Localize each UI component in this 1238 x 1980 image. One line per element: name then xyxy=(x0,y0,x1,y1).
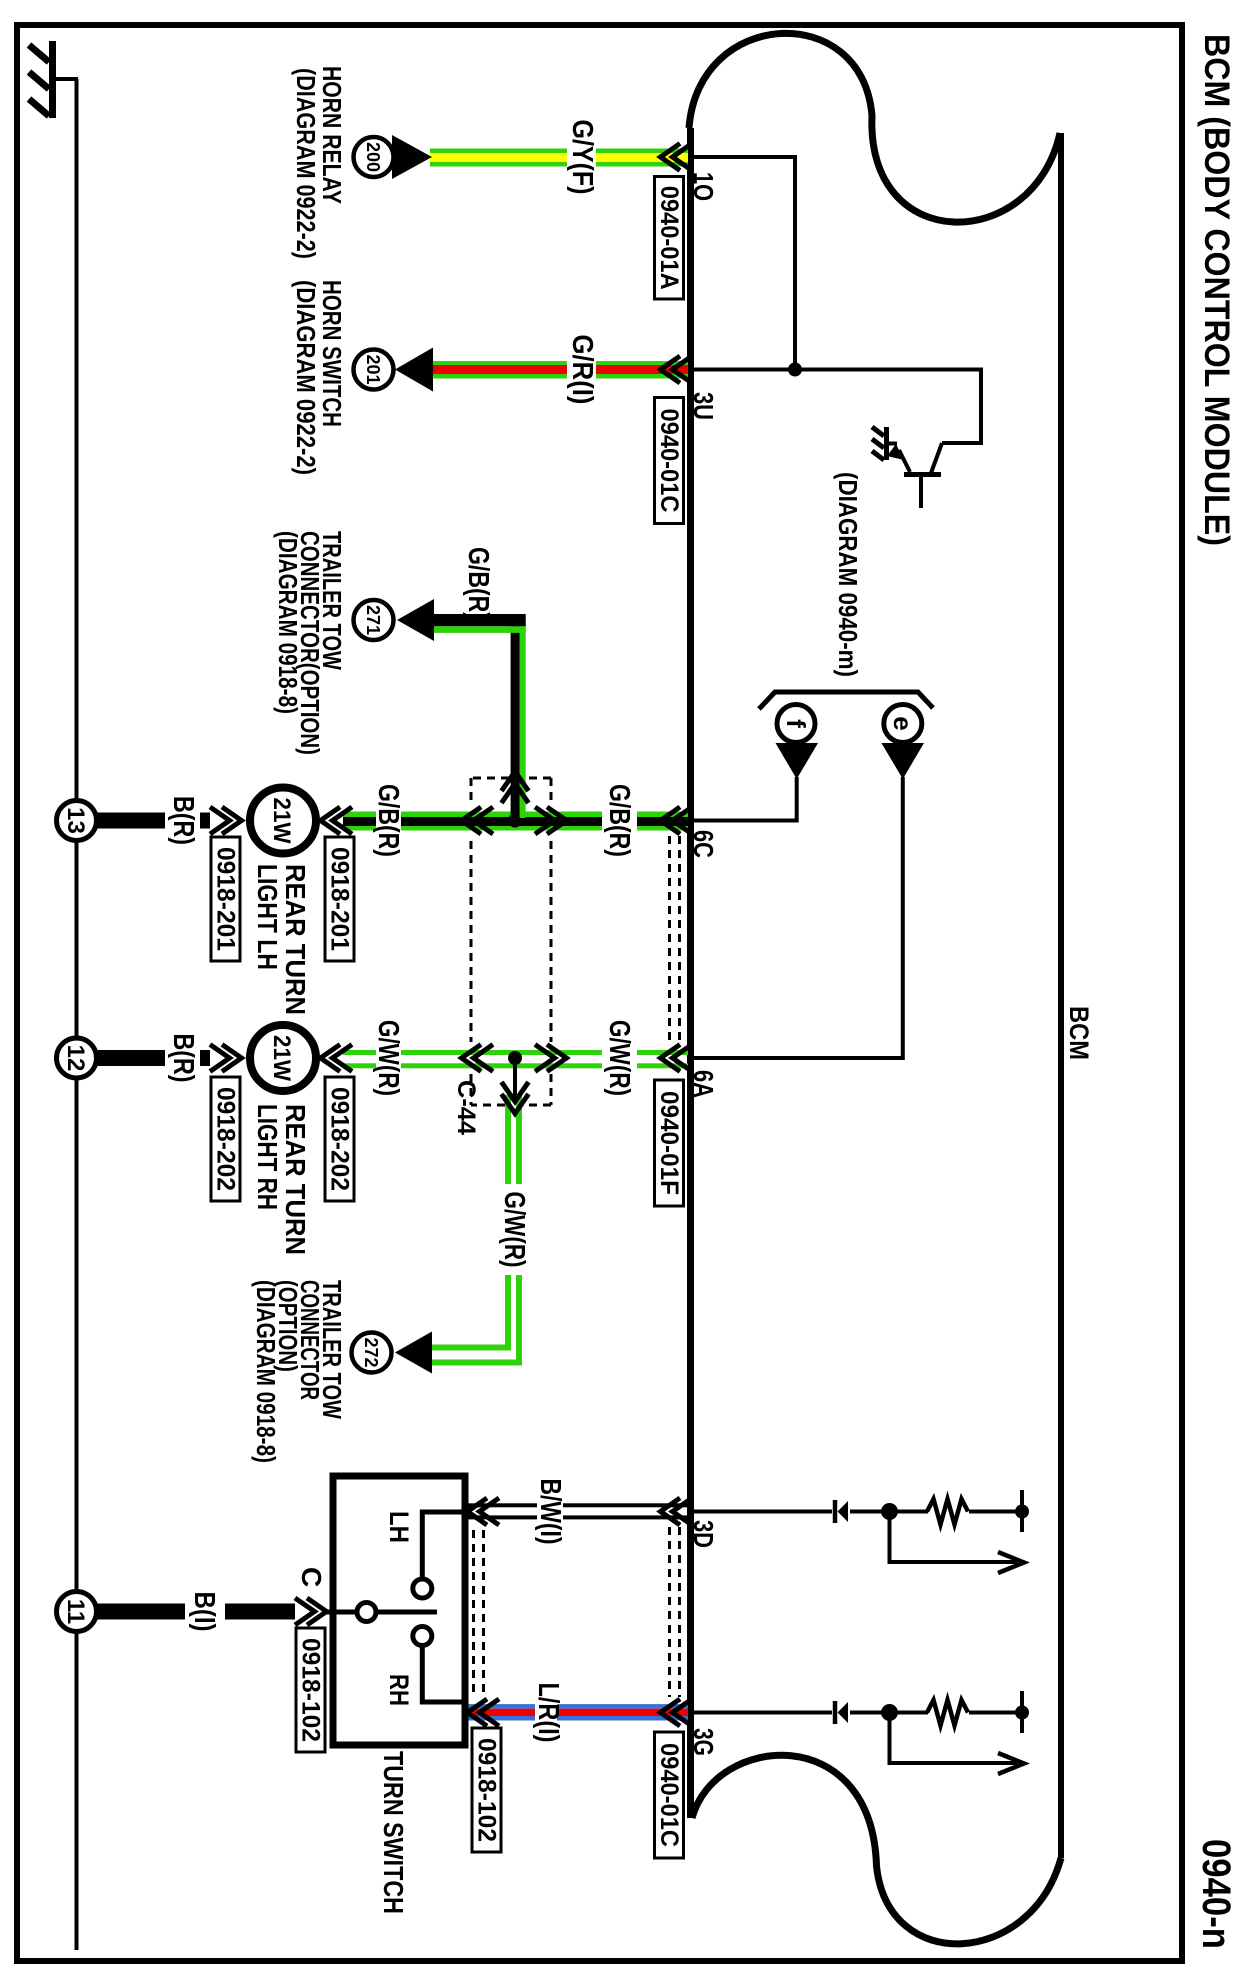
chevron at rear turn light LH upper xyxy=(321,807,353,834)
wire pin 3U internal xyxy=(691,370,981,444)
wire 3D branch arrow xyxy=(890,1516,1018,1562)
connector box 0918-202 upper xyxy=(325,1077,354,1201)
connector box 0918-201 lower xyxy=(211,837,240,961)
connector dashes 0940-01C xyxy=(670,1527,680,1697)
svg-text:L/R(I): L/R(I) xyxy=(532,1683,564,1743)
resistor R1 xyxy=(927,1499,968,1525)
label REAR TURN LIGHT RH xyxy=(252,1104,311,1255)
wire diode to junction 3D xyxy=(850,1510,888,1514)
wire G/W(R) branch to trailer tow 272 xyxy=(432,1058,522,1366)
chevron L/R at turn switch xyxy=(468,1699,500,1726)
svg-text:3D: 3D xyxy=(688,1520,719,1548)
svg-text:272: 272 xyxy=(361,1337,381,1367)
brace to diagram 0940-m xyxy=(759,692,933,709)
junction 1O/3U xyxy=(788,363,802,377)
svg-text:G/B(R): G/B(R) xyxy=(603,784,635,857)
svg-text:0918-201: 0918-201 xyxy=(212,847,240,951)
svg-text:f: f xyxy=(781,719,811,728)
svg-text:3U: 3U xyxy=(688,392,719,420)
svg-text:0940-01F: 0940-01F xyxy=(655,1091,683,1195)
wire e to 6A xyxy=(691,777,903,1058)
svg-text:LH: LH xyxy=(384,1511,414,1543)
junction 6C / trailer tow branch xyxy=(508,814,522,828)
node 13 (ground connector) xyxy=(57,801,97,841)
svg-text:(DIAGRAM 0918-8): (DIAGRAM 0918-8) xyxy=(273,531,303,714)
lamp 21W rear turn light LH xyxy=(250,788,316,854)
svg-text:G/W(R): G/W(R) xyxy=(498,1192,530,1268)
wire L/R(I) pin 3G to turn switch xyxy=(466,1704,688,1720)
connector box 0918-102 lower xyxy=(296,1628,325,1752)
label TRAILER TOW CONNECTOR (OPTION) (DIAGRAM 0918-8) xyxy=(251,1280,347,1463)
svg-text:BCM: BCM xyxy=(1064,1006,1094,1060)
svg-text:C: C xyxy=(296,1567,327,1587)
svg-text:(DIAGRAM 0922-2): (DIAGRAM 0922-2) xyxy=(291,68,321,259)
connector box 0940-01C xyxy=(655,398,684,524)
svg-text:G/Y(F): G/Y(F) xyxy=(566,120,598,195)
label TRAILER TOW CONNECTOR(OPTION) (DIAGRAM 0918-8) xyxy=(273,531,347,755)
chevron 6A wire out of C-44 xyxy=(462,1045,494,1072)
label REAR TURN LIGHT LH xyxy=(252,864,311,1015)
svg-text:0918-201: 0918-201 xyxy=(326,847,354,951)
turn switch LH contact xyxy=(413,1579,432,1598)
chevron branch 271 xyxy=(502,772,529,804)
svg-text:e: e xyxy=(888,716,918,730)
svg-text:11: 11 xyxy=(62,1599,89,1624)
svg-text:6C: 6C xyxy=(688,830,719,858)
wire f to 6C xyxy=(691,777,797,821)
turn switch common arm xyxy=(375,1610,437,1615)
junction 6A / trailer tow branch xyxy=(508,1051,522,1065)
connector dashes 0918-102 xyxy=(474,1530,484,1697)
connector chevron pin 3U xyxy=(661,356,693,383)
BCM module top edge xyxy=(1058,133,1064,1858)
wire G/R(I) pin 3U to horn switch xyxy=(433,361,688,379)
svg-text:0940-n: 0940-n xyxy=(1194,1839,1238,1949)
svg-text:12: 12 xyxy=(62,1045,89,1072)
svg-text:B(I): B(I) xyxy=(188,1592,220,1632)
diode D2 xyxy=(835,1701,848,1724)
svg-text:21W: 21W xyxy=(268,1035,295,1081)
svg-text:C-44: C-44 xyxy=(452,1080,480,1135)
wire junction to resistor 3D xyxy=(890,1510,928,1514)
label HORN SWITCH (DIAGRAM 0922-2) xyxy=(291,280,347,475)
transistor Q1 xyxy=(887,443,942,508)
svg-text:LIGHT RH: LIGHT RH xyxy=(252,1104,283,1210)
lamp 21W rear turn light RH xyxy=(250,1025,316,1091)
junction 3D internal xyxy=(881,1503,898,1520)
terminal 3D xyxy=(1015,1490,1029,1532)
connector chevron pin 6C xyxy=(661,807,693,834)
svg-text:0918-202: 0918-202 xyxy=(326,1087,354,1191)
svg-text:REAR TURN: REAR TURN xyxy=(280,1104,311,1255)
turn switch LH throw wire xyxy=(422,1512,462,1578)
svg-text:0918-102: 0918-102 xyxy=(297,1638,325,1742)
svg-text:0940-01C: 0940-01C xyxy=(655,1743,683,1847)
chevron branch 272 xyxy=(502,1082,529,1114)
wire junction to resistor 3G xyxy=(890,1711,928,1715)
chevron at rear turn light RH lower xyxy=(210,1045,242,1072)
svg-text:3G: 3G xyxy=(688,1728,719,1756)
svg-text:(DIAGRAM 0940-m): (DIAGRAM 0940-m) xyxy=(833,472,863,677)
transistor emitter ground symbol xyxy=(872,427,897,460)
chevron 6C wire out of C-44 xyxy=(462,807,494,834)
horn switch arrow 201 xyxy=(354,348,434,392)
svg-text:B(R): B(R) xyxy=(167,796,199,845)
diode D1 xyxy=(835,1500,848,1523)
svg-text:LIGHT LH: LIGHT LH xyxy=(252,864,283,970)
svg-text:0940-01A: 0940-01A xyxy=(655,186,683,290)
off-page arrow f xyxy=(776,705,819,780)
wire B(R) rear turn light RH to ground 12 xyxy=(95,1050,210,1066)
svg-text:13: 13 xyxy=(62,807,89,834)
connector box 0918-202 lower xyxy=(211,1077,240,1201)
wire B(I) turn switch to ground 11 xyxy=(95,1604,295,1620)
trailer tow connector arrow 271 xyxy=(354,599,435,641)
connector box 0940-01F xyxy=(655,1080,684,1206)
chevron B/W at turn switch xyxy=(468,1498,500,1525)
BCM module left break squiggle xyxy=(689,33,1060,222)
svg-text:6A: 6A xyxy=(688,1070,719,1098)
connector box 0940-01C lower xyxy=(655,1732,684,1858)
turn switch box xyxy=(333,1476,465,1745)
turn switch common contact xyxy=(357,1603,376,1622)
svg-text:G/W(R): G/W(R) xyxy=(372,1020,404,1096)
chevron at rear turn light LH lower xyxy=(210,807,242,834)
label HORN RELAY (DIAGRAM 0922-2) xyxy=(291,66,347,259)
connector box 0940-01A xyxy=(655,177,684,300)
connector chevron pin 3G xyxy=(661,1699,693,1726)
chevron 6A wire into C-44 xyxy=(535,1045,567,1072)
wire diode to junction 3G xyxy=(850,1711,888,1715)
wire pin 3G internal xyxy=(691,1711,832,1715)
svg-text:21W: 21W xyxy=(268,798,295,844)
svg-text:RH: RH xyxy=(384,1674,414,1706)
ground symbol xyxy=(29,41,53,118)
svg-text:201: 201 xyxy=(363,354,383,384)
connector chevron pin 6A xyxy=(661,1045,693,1072)
wire pin 1O internal xyxy=(691,157,795,368)
BCM module right break squiggle xyxy=(692,1755,1061,1944)
connector chevron pin 3D xyxy=(661,1498,693,1525)
wire G/Y(F) pin 1O to horn relay xyxy=(430,149,688,167)
node 12 (ground connector) xyxy=(57,1038,97,1078)
node 11 (ground connector) xyxy=(57,1592,97,1632)
svg-text:BCM (BODY CONTROL MODULE): BCM (BODY CONTROL MODULE) xyxy=(1197,34,1236,546)
svg-text:0940-01C: 0940-01C xyxy=(655,409,683,513)
chevron at rear turn light RH upper xyxy=(321,1045,353,1072)
svg-text:271: 271 xyxy=(363,605,383,635)
connector dashes 0940-01F xyxy=(670,836,680,1046)
wire G/B(R) pin 6C to rear turn light LH xyxy=(343,812,688,831)
terminal 3G xyxy=(1015,1691,1029,1733)
wire B/W(I) pin 3D to turn switch xyxy=(466,1503,688,1519)
wire B(R) rear turn light LH to ground 13 xyxy=(95,813,210,829)
svg-text:G/B(R): G/B(R) xyxy=(372,784,404,857)
connector chevron pin 1O xyxy=(661,144,693,171)
ground lead wire xyxy=(55,77,78,81)
ground bus wire xyxy=(75,79,79,1950)
svg-text:HORN SWITCH: HORN SWITCH xyxy=(317,280,347,427)
turn switch RH contact xyxy=(413,1627,432,1646)
svg-text:200: 200 xyxy=(363,142,383,172)
svg-text:G/R(I): G/R(I) xyxy=(566,335,598,405)
wire 3G branch arrow xyxy=(890,1717,1018,1763)
resistor R2 xyxy=(927,1700,968,1726)
wire G/B(R) branch to trailer tow 271 xyxy=(434,614,526,818)
svg-text:0918-202: 0918-202 xyxy=(212,1087,240,1191)
wire resistor to terminal 3G xyxy=(969,1711,1016,1715)
junction 3G internal xyxy=(881,1704,898,1721)
svg-text:B(R): B(R) xyxy=(167,1034,199,1083)
svg-text:(DIAGRAM 0918-8): (DIAGRAM 0918-8) xyxy=(251,1280,281,1463)
svg-text:G/W(R): G/W(R) xyxy=(603,1020,635,1096)
turn switch common lead xyxy=(326,1610,358,1615)
svg-text:(DIAGRAM 0922-2): (DIAGRAM 0922-2) xyxy=(291,280,321,475)
trailer tow connector arrow 272 xyxy=(352,1332,433,1374)
svg-text:REAR TURN: REAR TURN xyxy=(280,864,311,1015)
arrow 3D branch xyxy=(998,1552,1024,1573)
chevron 6C wire into C-44 xyxy=(535,807,567,834)
svg-text:B/W(I): B/W(I) xyxy=(534,1479,566,1545)
svg-text:TURN SWITCH: TURN SWITCH xyxy=(378,1751,409,1914)
wire resistor to terminal 3D xyxy=(969,1510,1016,1514)
wire G/W(R) pin 6A to rear turn light RH xyxy=(343,1050,688,1068)
arrow 3G branch xyxy=(998,1753,1024,1774)
connector box 0918-201 upper xyxy=(325,837,354,961)
svg-text:0918-102: 0918-102 xyxy=(473,1738,501,1842)
connector C-44 dashed box xyxy=(471,778,551,1105)
connector box 0918-102 upper xyxy=(472,1728,501,1852)
svg-text:G/B(R): G/B(R) xyxy=(462,547,494,620)
svg-text:1O: 1O xyxy=(688,172,719,201)
chevron B(I) at turn switch xyxy=(295,1598,327,1625)
wire pin 3D internal xyxy=(691,1510,832,1514)
horn relay arrow 200 xyxy=(354,135,433,179)
turn switch RH throw wire xyxy=(422,1646,462,1702)
BCM module bottom edge (thick line) xyxy=(687,128,694,1818)
off-page arrow e xyxy=(881,705,924,780)
svg-text:HORN RELAY: HORN RELAY xyxy=(317,66,347,204)
